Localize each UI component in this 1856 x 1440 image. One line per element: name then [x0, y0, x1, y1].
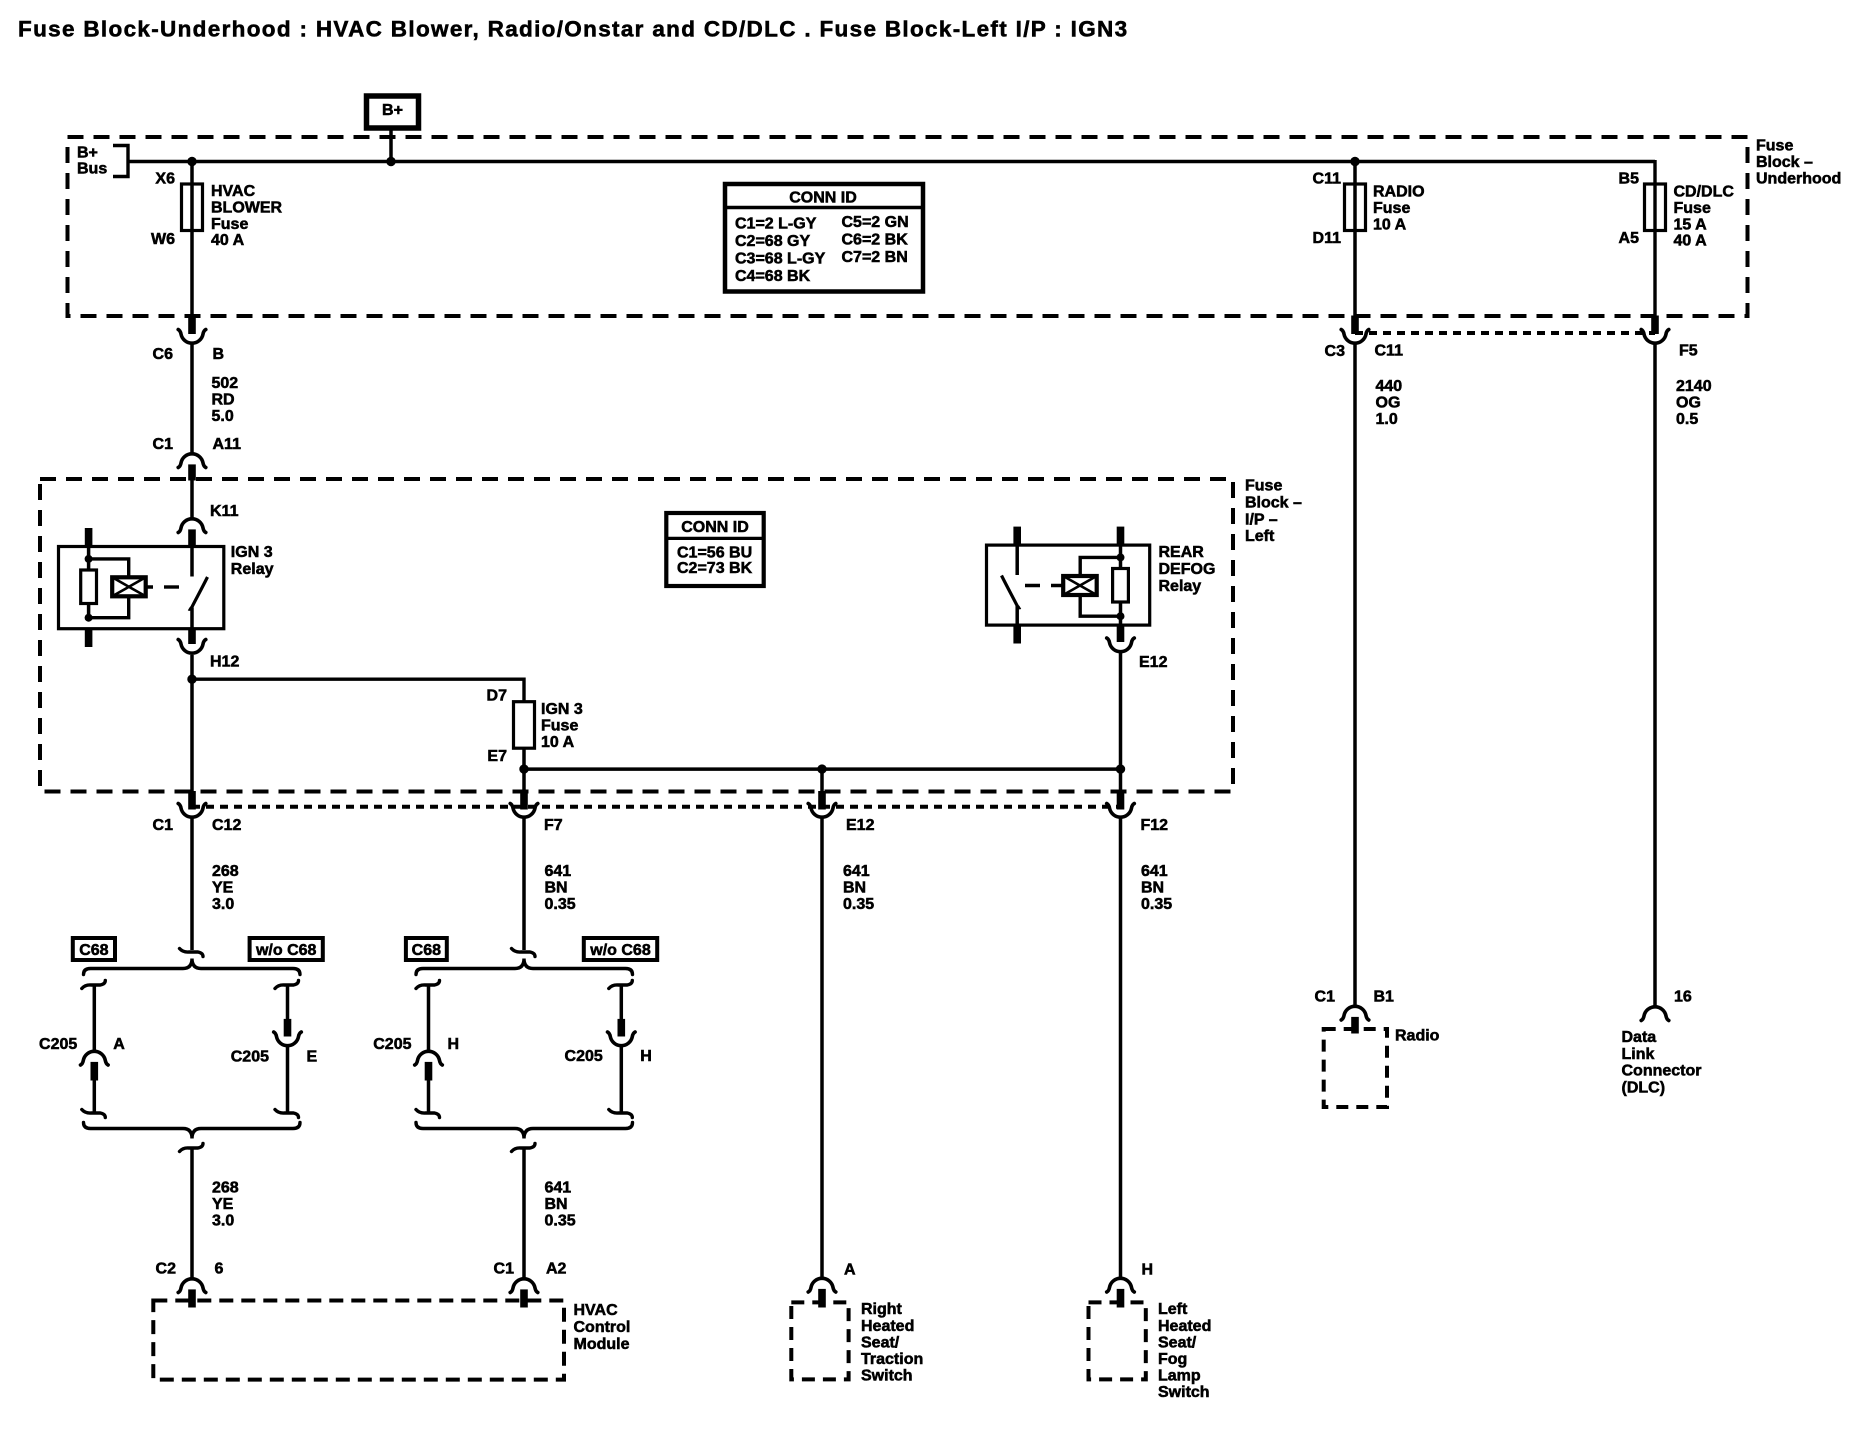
svg-text:Fuse: Fuse [211, 216, 248, 233]
connector C1/A11 dome [178, 454, 206, 468]
REAR DEFOG relay coil junction dot top [1117, 553, 1125, 561]
svg-text:Block –: Block – [1756, 154, 1813, 171]
svg-text:B5: B5 [1619, 171, 1640, 188]
svg-text:B: B [213, 346, 225, 363]
left heated seat switch dashed box [1089, 1302, 1146, 1379]
connector C6/B pin [189, 316, 196, 334]
svg-text:C1: C1 [153, 436, 174, 453]
svg-text:16: 16 [1674, 989, 1692, 1006]
IGN 3 relay actuator dashed link [153, 585, 187, 588]
svg-text:Relay: Relay [231, 561, 274, 578]
svg-text:440: 440 [1376, 378, 1403, 395]
svg-text:Seat/: Seat/ [861, 1334, 900, 1351]
group1 C68 flag box [73, 938, 115, 960]
svg-text:C68: C68 [79, 942, 108, 959]
group1 outgoing wire [190, 1148, 194, 1279]
group1 left branch wire upper [93, 985, 97, 1052]
svg-text:C1: C1 [494, 1261, 515, 1278]
svg-text:268: 268 [212, 1180, 239, 1197]
svg-text:Link: Link [1622, 1046, 1655, 1063]
CONN ID table (I/P) [666, 513, 763, 586]
svg-text:A5: A5 [1619, 230, 1640, 247]
group2 right branch wire lower [620, 1045, 624, 1113]
IGN 3 relay switch wire bottom [190, 608, 194, 629]
svg-text:E7: E7 [487, 748, 507, 765]
IGN 3 relay switch wire top [190, 547, 194, 577]
connector C1/B1 pin [1352, 1017, 1359, 1033]
svg-text:Heated: Heated [1158, 1318, 1211, 1335]
wire H12 to junction [190, 655, 194, 679]
svg-text:Left: Left [1158, 1301, 1188, 1318]
svg-text:W6: W6 [151, 231, 175, 248]
junction dot F12 branch [1116, 764, 1125, 773]
REAR DEFOG relay coil box [1063, 576, 1097, 595]
svg-text:C11: C11 [1375, 343, 1404, 360]
svg-text:C2: C2 [156, 1261, 177, 1278]
group1 left branch top tick [82, 981, 106, 989]
group1 upper brace [84, 959, 301, 975]
group1 right branch wire upper [286, 985, 290, 1020]
svg-text:E: E [307, 1049, 318, 1066]
svg-text:A: A [844, 1262, 856, 1279]
junction dot H12 [187, 675, 196, 684]
svg-text:C4=68 BK: C4=68 BK [735, 268, 811, 285]
REAR DEFOG relay resistor [1113, 569, 1129, 603]
right heated seat switch dashed box [791, 1302, 848, 1379]
svg-text:Seat/: Seat/ [1158, 1334, 1197, 1351]
svg-text:E12: E12 [846, 817, 875, 834]
svg-text:Bus: Bus [77, 161, 107, 178]
group1 right branch cup [274, 1032, 302, 1046]
svg-text:F7: F7 [544, 817, 563, 834]
svg-text:H12: H12 [210, 654, 239, 671]
fuse block I/P left dashed box [40, 479, 1233, 792]
svg-text:C205: C205 [231, 1049, 269, 1066]
svg-text:HVAC: HVAC [211, 183, 256, 200]
svg-text:Fuse: Fuse [1674, 200, 1711, 217]
svg-text:YE: YE [212, 880, 234, 897]
svg-text:w/o C68: w/o C68 [255, 942, 317, 959]
svg-text:YE: YE [212, 1196, 234, 1213]
svg-text:Data: Data [1622, 1029, 1657, 1046]
svg-text:CD/DLC: CD/DLC [1674, 184, 1735, 201]
group1 w/o C68 flag box [250, 938, 323, 960]
svg-text:C12: C12 [212, 817, 241, 834]
REAR DEFOG relay coil junction dot bottom [1117, 612, 1125, 620]
svg-text:641: 641 [545, 863, 572, 880]
svg-text:B1: B1 [1374, 989, 1395, 1006]
wire H12 junction down [190, 679, 194, 791]
distribution wire E7 to F12 [524, 767, 1121, 771]
REAR DEFOG relay actuator dashed link [1023, 584, 1057, 587]
svg-text:Radio: Radio [1395, 1028, 1440, 1045]
wire F5 to DLC [1653, 343, 1657, 1007]
connector DLC dome [1641, 1007, 1669, 1021]
svg-text:Fog: Fog [1158, 1351, 1187, 1368]
svg-text:Connector: Connector [1622, 1063, 1702, 1080]
group2 left branch wire lower [427, 1080, 431, 1113]
group1 outgoing wire tick [180, 1144, 204, 1152]
connector C1/B1 dome [1341, 1006, 1369, 1020]
svg-text:OG: OG [1676, 395, 1701, 412]
svg-text:641: 641 [545, 1180, 572, 1197]
IGN 3 relay unused pin stub bottom left [85, 629, 92, 647]
svg-text:641: 641 [843, 863, 870, 880]
svg-text:C11: C11 [1313, 171, 1342, 188]
REAR DEFOG relay unused pin stub top left [1014, 527, 1021, 545]
dotted connector line C12-F12 [192, 805, 1121, 809]
wire A11 to K11 [190, 479, 194, 520]
group1 right branch bottom tick [275, 1110, 299, 1118]
wire F12 to H switch [1119, 817, 1123, 1279]
svg-text:CONN ID: CONN ID [789, 190, 857, 207]
IGN 3 relay coil pin stub top [85, 529, 92, 547]
junction dot E7 [519, 764, 528, 773]
group1 right branch wire lower [286, 1045, 290, 1113]
svg-text:C1: C1 [153, 817, 174, 834]
B+ supply box [367, 96, 419, 128]
group1 left branch bottom tick [82, 1110, 106, 1118]
connector C1/A2 dome [510, 1279, 538, 1293]
svg-text:2140: 2140 [1676, 378, 1712, 395]
group1 right branch top tick [275, 981, 299, 989]
svg-text:CONN ID: CONN ID [681, 519, 749, 536]
svg-text:Fuse Block-Underhood : HVAC Bl: Fuse Block-Underhood : HVAC Blower, Radi… [18, 16, 1128, 41]
svg-text:I/P –: I/P – [1245, 511, 1278, 528]
svg-text:Block –: Block – [1245, 495, 1302, 512]
CD/DLC fuse B5/A5 [1645, 184, 1666, 231]
svg-text:H: H [448, 1036, 460, 1053]
REAR DEFOG relay switch wire bottom [1015, 606, 1019, 625]
REAR DEFOG relay coil stub [1056, 584, 1063, 588]
svg-text:268: 268 [212, 863, 239, 880]
wire F12 junction down [1119, 769, 1123, 791]
svg-text:0.35: 0.35 [545, 1213, 576, 1230]
svg-text:0.5: 0.5 [1676, 411, 1698, 428]
wire bus corner to CD/DLC fuse [1653, 160, 1656, 316]
junction dot bus/RADIO fuse [1350, 157, 1359, 166]
wire C11 to radio [1353, 343, 1357, 1006]
svg-text:40 A: 40 A [1674, 233, 1708, 250]
junction dot E12 branch [817, 764, 826, 773]
svg-text:(DLC): (DLC) [1622, 1079, 1666, 1096]
svg-text:OG: OG [1376, 395, 1401, 412]
svg-text:3.0: 3.0 [212, 896, 234, 913]
svg-text:D7: D7 [487, 688, 508, 705]
svg-text:641: 641 [1141, 863, 1168, 880]
connector C1/C12 pin+cup [189, 792, 196, 810]
svg-text:C2=68 GY: C2=68 GY [735, 233, 810, 250]
svg-text:A: A [113, 1036, 125, 1053]
B+ bus wire [128, 160, 1655, 164]
group1 left branch dome [81, 1051, 109, 1065]
svg-text:K11: K11 [210, 503, 239, 520]
connector H12 cup [178, 640, 206, 654]
connector F5 pin [1652, 316, 1659, 334]
svg-text:BN: BN [545, 1196, 568, 1213]
svg-text:Switch: Switch [861, 1368, 913, 1385]
svg-text:15 A: 15 A [1674, 216, 1708, 233]
wire F7 to C68 brace [522, 817, 526, 951]
IGN 3 relay coil junction dot top [85, 555, 93, 563]
svg-text:A2: A2 [546, 1261, 567, 1278]
wire B+ box to bus [389, 128, 393, 161]
group2 outgoing wire tick [512, 1144, 536, 1152]
connector H12 pin [189, 629, 196, 644]
svg-text:C5=2 GN: C5=2 GN [842, 214, 909, 231]
svg-text:Module: Module [574, 1336, 630, 1353]
IGN 3 relay resistor [81, 570, 97, 604]
svg-text:B+: B+ [382, 102, 403, 119]
svg-text:0.35: 0.35 [545, 896, 576, 913]
radio dashed box [1324, 1029, 1387, 1107]
svg-text:10 A: 10 A [541, 734, 575, 751]
wire E12 relay to junction [1119, 652, 1123, 769]
group2 left branch wire upper [427, 985, 431, 1052]
wire bus to HVAC fuse [190, 161, 194, 316]
svg-text:Right: Right [861, 1301, 903, 1318]
svg-text:RADIO: RADIO [1373, 184, 1425, 201]
svg-text:1.0: 1.0 [1376, 411, 1398, 428]
IGN 3 relay coil pin wire [87, 547, 91, 618]
svg-text:6: 6 [215, 1261, 224, 1278]
svg-text:C7=2 BN: C7=2 BN [842, 249, 908, 266]
svg-text:C3=68 L-GY: C3=68 L-GY [735, 251, 826, 268]
wire E7 to junction [522, 748, 526, 769]
connector F7 pin+cup [521, 792, 528, 810]
REAR DEFOG relay coil top link [1080, 557, 1120, 576]
svg-text:REAR: REAR [1159, 544, 1205, 561]
svg-text:Fuse: Fuse [1756, 138, 1793, 155]
group2 lower brace [416, 1123, 633, 1139]
svg-text:0.35: 0.35 [1141, 896, 1172, 913]
group1 lower brace [84, 1123, 301, 1139]
HVAC BLOWER fuse X6/W6 [182, 184, 203, 231]
connector E12b pin+cup [819, 792, 826, 810]
IGN 3 relay coil box [112, 577, 146, 596]
REAR DEFOG relay box [987, 545, 1150, 625]
svg-text:Fuse: Fuse [541, 718, 578, 735]
connector E12 cup (relay) [1107, 638, 1135, 652]
svg-text:Fuse: Fuse [1245, 478, 1282, 495]
svg-text:C205: C205 [373, 1036, 411, 1053]
junction dot bus/HVAC fuse [187, 157, 196, 166]
group1 left branch pin [91, 1062, 98, 1080]
svg-text:BLOWER: BLOWER [211, 200, 283, 217]
HVAC control module dashed box [153, 1301, 564, 1380]
svg-text:C1=2 L-GY: C1=2 L-GY [735, 216, 817, 233]
connector F5 cup [1641, 330, 1669, 344]
wire C6 to C1 [190, 343, 194, 454]
group2 right branch pin [618, 1019, 625, 1036]
svg-text:5.0: 5.0 [212, 408, 234, 425]
REAR DEFOG relay coil bottom link [1080, 595, 1120, 616]
svg-text:C6=2 BK: C6=2 BK [842, 232, 909, 249]
fuse block underhood dashed box [68, 137, 1748, 316]
IGN 3 relay coil junction dot bottom [85, 614, 93, 622]
svg-text:C1: C1 [1315, 989, 1336, 1006]
REAR DEFOG relay switch blade [1002, 576, 1021, 608]
svg-text:C205: C205 [565, 1048, 603, 1065]
IGN 3 relay coil stub [146, 585, 153, 589]
svg-text:IGN 3: IGN 3 [541, 701, 583, 718]
svg-text:C205: C205 [39, 1036, 77, 1053]
svg-text:HVAC: HVAC [574, 1302, 619, 1319]
svg-text:40 A: 40 A [211, 232, 245, 249]
svg-text:3.0: 3.0 [212, 1213, 234, 1230]
svg-text:BN: BN [843, 880, 866, 897]
svg-text:B+: B+ [77, 145, 98, 162]
connector A pin [819, 1289, 826, 1307]
group2 right branch cup [608, 1032, 636, 1046]
connector C2/6 pin [189, 1290, 196, 1307]
IGN 3 relay switch blade [189, 577, 208, 609]
group1 right branch pin [284, 1019, 291, 1036]
connector C1/A11 pin [189, 465, 196, 480]
junction dot B+ drop [386, 157, 395, 166]
B+ Bus bracket [113, 146, 128, 177]
connector K11 pin [189, 530, 196, 547]
connector H pin [1117, 1289, 1124, 1307]
svg-text:F12: F12 [1141, 817, 1169, 834]
svg-text:BN: BN [1141, 880, 1164, 897]
group2 left branch top tick [416, 981, 440, 989]
connector C6/B cup [178, 330, 206, 344]
wire junction to F7 [522, 769, 526, 791]
svg-text:10 A: 10 A [1373, 216, 1407, 233]
svg-text:H: H [640, 1048, 652, 1065]
svg-text:DEFOG: DEFOG [1159, 561, 1216, 578]
IGN 3 fuse D7/E7 [514, 702, 535, 749]
svg-text:C3: C3 [1325, 343, 1346, 360]
svg-text:Heated: Heated [861, 1318, 914, 1335]
REAR DEFOG relay resistor pin stub top [1117, 527, 1124, 545]
svg-text:D11: D11 [1313, 230, 1342, 247]
IGN 3 relay box [59, 547, 224, 629]
group2 right branch bottom tick [609, 1110, 633, 1118]
group2 w/o C68 flag box [584, 938, 657, 960]
svg-text:BN: BN [545, 880, 568, 897]
svg-text:F5: F5 [1679, 343, 1698, 360]
group1 incoming wire end tick [180, 949, 204, 957]
connector K11 dome [178, 519, 206, 533]
group2 right branch top tick [609, 981, 633, 989]
group2 outgoing wire [522, 1148, 526, 1279]
connector C1/A2 pin [521, 1290, 528, 1307]
svg-text:X6: X6 [155, 171, 175, 188]
connector F12 pin+cup [1117, 792, 1124, 810]
svg-text:Fuse: Fuse [1373, 200, 1410, 217]
svg-text:A11: A11 [213, 436, 242, 453]
connector C3/C11 cup [1341, 330, 1369, 344]
svg-text:502: 502 [212, 375, 239, 392]
REAR DEFOG relay unused pin stub bottom [1014, 625, 1021, 643]
svg-text:Lamp: Lamp [1158, 1368, 1201, 1385]
CONN ID table (underhood) [725, 184, 923, 292]
REAR DEFOG relay switch wire top [1015, 545, 1019, 575]
svg-text:Relay: Relay [1159, 578, 1202, 595]
RADIO fuse C11/D11 [1345, 184, 1366, 231]
connector C2/6 dome [178, 1279, 206, 1293]
group2 upper brace [416, 959, 633, 975]
connector H dome [1107, 1278, 1135, 1292]
group2 C68 flag box [406, 938, 447, 960]
svg-text:E12: E12 [1139, 654, 1168, 671]
dotted connector line C3-F5 [1355, 331, 1655, 335]
wire E12 to A switch [820, 817, 824, 1279]
group2 left branch dome [415, 1051, 443, 1065]
svg-text:IGN 3: IGN 3 [231, 544, 273, 561]
connector E12 pin (relay) [1117, 625, 1124, 641]
svg-text:C2=73 BK: C2=73 BK [677, 560, 753, 577]
svg-text:Traction: Traction [861, 1351, 923, 1368]
group2 right branch wire upper [620, 985, 624, 1020]
svg-text:w/o C68: w/o C68 [589, 942, 651, 959]
connector C3/C11 pin [1352, 316, 1359, 334]
group2 left branch pin [425, 1062, 432, 1080]
svg-text:Switch: Switch [1158, 1384, 1210, 1401]
wire junction to E12 [820, 769, 824, 791]
wire H12 junction to D7 branch [192, 679, 524, 702]
svg-text:Control: Control [574, 1319, 631, 1336]
IGN 3 relay coil bottom link [89, 596, 129, 617]
IGN 3 relay coil top link [89, 559, 129, 577]
svg-text:C68: C68 [412, 942, 441, 959]
group2 left branch bottom tick [416, 1110, 440, 1118]
REAR DEFOG relay resistor wire [1119, 545, 1123, 625]
wire C12 to C68 brace [190, 817, 194, 951]
group1 left branch wire lower [93, 1080, 97, 1113]
svg-text:C6: C6 [153, 346, 174, 363]
svg-text:Left: Left [1245, 528, 1275, 545]
svg-text:0.35: 0.35 [843, 896, 874, 913]
svg-text:RD: RD [212, 392, 235, 409]
wire bus to RADIO fuse [1353, 161, 1357, 316]
svg-text:H: H [1142, 1262, 1154, 1279]
connector A dome [808, 1278, 836, 1292]
group2 incoming wire end tick [512, 949, 536, 957]
svg-text:Underhood: Underhood [1756, 170, 1841, 187]
